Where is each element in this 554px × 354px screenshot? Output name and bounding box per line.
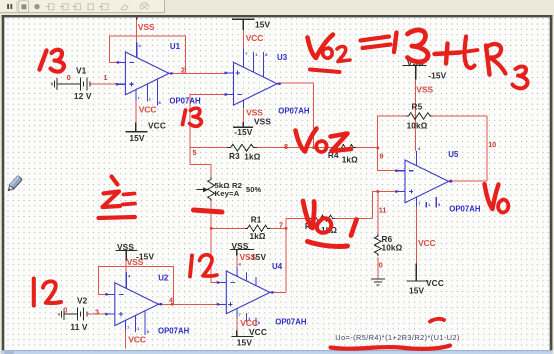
wire U3 VCC supply drop xyxy=(242,30,244,48)
svg-text:7: 7 xyxy=(138,96,140,101)
svg-text:R1: R1 xyxy=(251,216,262,225)
svg-text:5: 5 xyxy=(193,148,197,157)
wire U2 feedback loop xyxy=(99,267,174,305)
rail bar VCC below U5 xyxy=(407,264,429,282)
potentiometer R2 wiper arrow xyxy=(197,189,204,191)
rail bar VCC below U1 xyxy=(126,123,148,132)
svg-text:4: 4 xyxy=(169,296,173,305)
svg-text:VCC: VCC xyxy=(139,105,157,115)
battery V1 plates xyxy=(80,77,90,90)
wire U4 VCC supply drop xyxy=(236,318,238,331)
svg-text:U5: U5 xyxy=(448,150,459,159)
op-amp U1 body xyxy=(125,52,169,95)
svg-text:15V: 15V xyxy=(129,133,145,143)
svg-text:0: 0 xyxy=(67,73,71,82)
pencil cursor xyxy=(6,176,22,193)
svg-text:9: 9 xyxy=(380,152,384,161)
wire node 5 row through R3 R4 to node 9 xyxy=(190,147,378,149)
wire U3 output down to node 8 xyxy=(278,83,314,148)
svg-text:VCC: VCC xyxy=(418,238,436,248)
resistor R1 1kOhm xyxy=(245,225,270,231)
svg-text:R5: R5 xyxy=(412,102,423,111)
wire node 9 vertical to U5 minus input xyxy=(377,116,396,171)
svg-text:11 V: 11 V xyxy=(70,322,88,332)
svg-text:VCC: VCC xyxy=(246,33,264,43)
svg-text:VSS: VSS xyxy=(138,22,155,32)
svg-text:7: 7 xyxy=(418,201,420,206)
bottom scrollbar strip xyxy=(2,350,553,354)
junction node 7 U4 output xyxy=(285,227,288,230)
wire U5 VCC supply drop xyxy=(415,207,417,264)
svg-text:OP07AH: OP07AH xyxy=(278,107,310,116)
wire U2 output to U4 plus input xyxy=(161,303,219,305)
svg-text:Key=A: Key=A xyxy=(215,189,240,198)
svg-text:VSS: VSS xyxy=(232,241,249,251)
resistor R6 10kOhm (vertical) xyxy=(374,234,381,256)
wire U1 VSS supply drop xyxy=(136,19,138,42)
svg-text:VCC: VCC xyxy=(148,121,166,131)
wire U2 VCC supply drop xyxy=(124,331,126,349)
ground symbol at V1 xyxy=(52,78,57,90)
svg-text:8: 8 xyxy=(284,142,288,151)
resistor R4 1kOhm xyxy=(331,145,356,151)
resistor R5 10kOhm xyxy=(406,113,433,120)
op-amp U4 body xyxy=(226,271,270,314)
svg-text:OP07AH: OP07AH xyxy=(275,318,307,327)
svg-text:7: 7 xyxy=(239,312,241,317)
svg-text:1kΩ: 1kΩ xyxy=(342,156,358,165)
svg-text:7: 7 xyxy=(245,51,247,56)
svg-text:7: 7 xyxy=(127,325,129,330)
toolbar disabled icons xyxy=(46,3,149,11)
svg-text:VCC: VCC xyxy=(249,327,267,337)
pin cross marks xyxy=(117,61,119,63)
svg-text:15V: 15V xyxy=(255,19,271,29)
potentiometer R2 5kOhm (vertical) xyxy=(208,177,215,202)
wire R6 bottom to ground xyxy=(377,257,379,279)
potentiometer arrow head xyxy=(203,187,209,192)
wire R5 feedback row xyxy=(377,115,487,117)
canvas top border xyxy=(2,15,553,17)
svg-text:Uo=-(R5/R4)*(1+2R3/R2)*(U1-U2): Uo=-(R5/R4)*(1+2R3/R2)*(U1-U2) xyxy=(335,333,460,342)
junction node 8 xyxy=(312,146,315,149)
svg-text:U4: U4 xyxy=(272,262,283,271)
wire U2 VSS supply drop xyxy=(125,261,127,273)
svg-text:2: 2 xyxy=(181,66,185,75)
annotation 12 bottom middle xyxy=(190,256,192,277)
svg-text:VSS: VSS xyxy=(246,108,263,118)
wire U1 output to U3 plus input xyxy=(171,72,226,74)
ground symbol below R6 xyxy=(371,279,385,285)
wire U5 output xyxy=(450,180,487,182)
wire U3 minus input to node 5 xyxy=(190,95,227,148)
svg-text:-15V: -15V xyxy=(234,127,252,137)
rail bar 15V above U3 xyxy=(232,19,254,30)
wire R7 row xyxy=(286,217,373,219)
svg-text:15V: 15V xyxy=(409,286,425,296)
svg-text:0: 0 xyxy=(63,305,67,314)
svg-text:1kΩ: 1kΩ xyxy=(250,232,266,241)
svg-text:VCC: VCC xyxy=(426,278,444,288)
canvas left border xyxy=(2,15,5,354)
battery V1 wire from ground xyxy=(57,83,80,85)
svg-text:VSS: VSS xyxy=(240,252,257,262)
svg-text:U3: U3 xyxy=(277,53,288,62)
junction U2 output node 4 xyxy=(171,303,174,306)
svg-text:11: 11 xyxy=(379,206,387,215)
svg-text:V1: V1 xyxy=(76,66,87,76)
annotation mark above formula xyxy=(430,319,444,322)
ground symbol at V2 xyxy=(59,308,64,320)
svg-text:1kΩ: 1kΩ xyxy=(244,152,260,161)
svg-text:U1: U1 xyxy=(170,42,181,51)
svg-text:V2: V2 xyxy=(77,296,88,306)
annotation 13 top left xyxy=(40,51,47,70)
wire R2 bottom to node 7 row and U4 minus input xyxy=(211,202,218,283)
annotation z= with underline xyxy=(112,177,118,185)
svg-text:VSS: VSS xyxy=(416,85,433,95)
svg-text:50%: 50% xyxy=(246,185,262,194)
wire U4 output vertical xyxy=(285,218,287,292)
op-amp U3 body xyxy=(234,62,278,105)
junction node 11 xyxy=(377,190,380,193)
svg-text:10kΩ: 10kΩ xyxy=(382,244,403,253)
toolbar panel xyxy=(0,0,165,13)
svg-text:VSS: VSS xyxy=(117,242,134,252)
svg-text:7: 7 xyxy=(279,220,283,229)
annotation equation Vo2 top right xyxy=(308,35,334,59)
svg-text:VSS: VSS xyxy=(254,117,271,127)
canvas right border xyxy=(550,15,553,354)
rail bar VSS above U2 xyxy=(116,251,138,261)
svg-text:15V: 15V xyxy=(237,338,253,348)
wire U1 VCC supply drop xyxy=(135,101,137,123)
wire V2 to U2 plus input xyxy=(88,313,107,315)
annotation underline below formula xyxy=(331,346,451,349)
svg-text:R3: R3 xyxy=(229,152,240,161)
wire U4 output xyxy=(271,292,287,294)
toolbar record circle xyxy=(34,4,39,9)
svg-text:-15V: -15V xyxy=(428,70,446,80)
annotation Vo2 middle xyxy=(296,129,317,152)
svg-text:OP07AH: OP07AH xyxy=(158,327,190,336)
annotation Vo1 xyxy=(303,201,314,228)
toolbar pause button xyxy=(7,4,9,9)
wire U5 feedback vertical xyxy=(486,116,488,181)
battery V2 wire from ground xyxy=(64,313,77,315)
svg-text:OP07AH: OP07AH xyxy=(449,205,481,214)
annotation 12 bottom left xyxy=(32,279,36,306)
op-amp U5 body xyxy=(405,160,449,203)
wire U5 VSS supply drop xyxy=(415,80,417,152)
wire node 11 down to R6 xyxy=(377,192,379,235)
battery V2 plates xyxy=(77,308,87,321)
svg-text:10kΩ: 10kΩ xyxy=(407,122,428,131)
wire V1 to U1 plus input xyxy=(90,83,117,85)
op-amp U2 body xyxy=(115,283,159,326)
annotation Vo right xyxy=(485,184,499,209)
svg-text:12 V: 12 V xyxy=(74,91,92,101)
annotation 13 below node 2 xyxy=(183,110,186,125)
svg-text:U2: U2 xyxy=(158,274,169,283)
svg-text:0: 0 xyxy=(379,261,383,270)
wire node 5 to potentiometer R2 top xyxy=(190,148,211,177)
rail stub VSS above U1 at canvas edge xyxy=(136,17,138,19)
svg-text:1: 1 xyxy=(104,73,108,82)
rail bar -15V below U3 xyxy=(233,122,253,127)
svg-text:10: 10 xyxy=(488,140,496,149)
annotation arrow dash xyxy=(194,210,223,212)
junction U5 output xyxy=(449,180,452,183)
wire U1 feedback loop xyxy=(109,36,185,74)
resistor R3 1kOhm xyxy=(227,144,257,151)
wire node 7 row through R1 xyxy=(211,227,286,229)
rail bar VCC below U4 xyxy=(232,331,254,337)
rail bar VSS above U4 xyxy=(230,250,254,256)
resistor R7 xyxy=(310,215,335,221)
svg-text:OP07AH: OP07AH xyxy=(169,96,201,105)
junction node 9 xyxy=(377,147,380,150)
wire node 11 to U5 plus input xyxy=(373,192,397,219)
wire U3 VSS supply drop xyxy=(242,108,244,123)
svg-text:VCC: VCC xyxy=(128,335,146,345)
svg-text:VSS: VSS xyxy=(127,257,144,267)
rail bar VSS above U5 xyxy=(403,66,427,80)
wire U4 VSS supply drop xyxy=(236,256,238,268)
svg-text:3: 3 xyxy=(95,308,99,317)
junction R2 bottom R1 xyxy=(210,227,213,230)
toolbar stop button (pressed) xyxy=(19,1,29,12)
